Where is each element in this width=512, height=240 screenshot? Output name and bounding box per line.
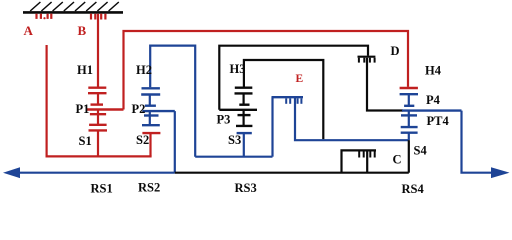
wire S2 down to red rail [149, 133, 151, 156]
svg-text:S3: S3 [228, 133, 241, 147]
clutch C left riser [342, 150, 377, 172]
gearset 3 sun plate S3 (blue net) [237, 132, 252, 134]
svg-text:RS3: RS3 [235, 181, 257, 195]
wire P4 output riser [462, 111, 492, 173]
svg-text:C: C [393, 153, 402, 167]
svg-text:P4: P4 [426, 93, 441, 107]
wire lower plate to sun-mesh plate [149, 116, 151, 126]
svg-text:S4: S4 [414, 144, 428, 158]
svg-text:E: E [296, 73, 304, 85]
gearset 3 ring plate H3 [235, 86, 253, 88]
wire P4 line to lower plate [408, 111, 410, 116]
wire carrier plate to pinion plate [97, 93, 99, 104]
wire S4/C black riser to shaft [408, 140, 410, 173]
wire carrier plate to pinion plate [408, 94, 410, 106]
svg-text:PT4: PT4 [427, 114, 450, 128]
wire P2 riser down to main shaft [174, 111, 176, 173]
svg-text:H4: H4 [425, 64, 442, 78]
clutch C teeth [359, 152, 375, 158]
wire P1 line to lower plate [97, 110, 99, 115]
gearset 2 ring plate H2 [142, 87, 160, 89]
wire S4 down to E net [408, 133, 410, 141]
node P4 carrier line [402, 109, 462, 111]
wire lower plate to sun-mesh plate [97, 114, 99, 125]
wire E riser from blue rail [271, 97, 273, 157]
wire P1 riser to top red rail [124, 31, 409, 110]
wire lower plate to sun-mesh plate [243, 115, 245, 126]
wire red net rail A-S1-S2 [46, 155, 152, 157]
svg-text:H2: H2 [136, 63, 152, 77]
svg-text:H1: H1 [77, 63, 93, 77]
node P1 carrier line [87, 108, 124, 110]
wire P3 riser and top black rail to D [219, 46, 368, 110]
wire H2 frame: left riser, top rail, right riser [150, 46, 195, 157]
wire carrier plate to pinion plate [243, 93, 245, 104]
wire S3 down to blue rail [243, 133, 245, 157]
svg-text:RS2: RS2 [138, 180, 160, 194]
wire P3 line to lower plate [243, 110, 245, 115]
svg-text:D: D [391, 44, 400, 58]
wire blue net rail H2-S3-E [195, 156, 272, 158]
wire C hub down to shaft [366, 152, 368, 173]
input shaft arrow (left) [3, 167, 20, 178]
svg-text:RS1: RS1 [91, 181, 113, 195]
gearset 1 pinion plate (narrow) [91, 103, 104, 105]
svg-text:A: A [24, 23, 34, 38]
gearset 4 sun plate S4 [401, 131, 418, 133]
brake A (teeth on frame) [37, 14, 52, 19]
node P2 carrier line [142, 110, 174, 112]
gearset 4 ring plate (red net) [400, 87, 418, 89]
gearset 3 pinion plate (narrow) [239, 103, 249, 105]
svg-text:H3: H3 [230, 62, 246, 76]
gearset 4 pinion plate (narrow) [404, 105, 414, 107]
main shaft blue segment [19, 172, 175, 174]
brake B (teeth on frame) [91, 14, 105, 20]
clutch E teeth [286, 98, 301, 103]
wire B shaft down to H1 [97, 14, 99, 87]
svg-text:P1: P1 [76, 102, 90, 116]
gearset 1 sun plate S1 [89, 129, 108, 131]
gearset 2 carrier upper plate [141, 93, 160, 95]
gearset 1 carrier upper plate [88, 92, 107, 94]
clutch D teeth [359, 58, 375, 63]
svg-text:P2: P2 [132, 102, 146, 116]
gearset 4 sun-mesh plate [401, 126, 418, 128]
wire carrier plate to pinion plate [149, 95, 151, 106]
gearset 1 lower plate [90, 113, 106, 115]
gearset 1 sun-mesh plate [89, 124, 107, 126]
gearset 1 ring plate H1 [88, 86, 106, 88]
gearset 4 carrier upper plate H4 [400, 93, 418, 95]
gearset 3 lower plate [238, 114, 251, 116]
gearset 3 carrier upper plate [235, 92, 253, 94]
output shaft arrow (right) [491, 167, 510, 178]
svg-text:S1: S1 [79, 134, 92, 148]
svg-text:P3: P3 [217, 112, 231, 126]
frame hatching [30, 2, 119, 11]
node P3 carrier line [219, 109, 257, 111]
gearset 2 sun-mesh plate [142, 124, 160, 126]
wire S1 down to red net [97, 130, 99, 156]
svg-text:RS4: RS4 [402, 182, 425, 196]
wire P2 line to lower plate [149, 111, 151, 115]
clutch E bar [272, 96, 304, 98]
wire H3 riser and rail [244, 60, 323, 139]
gearset 3 sun-mesh plate [236, 125, 252, 127]
wire lower plate to sun-mesh plate [408, 115, 410, 127]
svg-text:S2: S2 [136, 133, 149, 147]
gearset 2 lower plate [144, 114, 159, 116]
gearset 2 sun plate S2 (red net) [142, 132, 160, 134]
gearset 2 pinion plate (narrow) [145, 104, 156, 106]
gearset 4 lower plate [401, 114, 417, 116]
wire E hub down and over to S4 [295, 98, 409, 140]
main shaft black segment [175, 172, 409, 174]
clutch D bar [358, 56, 376, 58]
wire brake A riser [45, 45, 47, 156]
fixed frame bar [23, 11, 123, 14]
wire D hub down to P4 line [367, 58, 403, 111]
svg-text:B: B [78, 23, 87, 38]
